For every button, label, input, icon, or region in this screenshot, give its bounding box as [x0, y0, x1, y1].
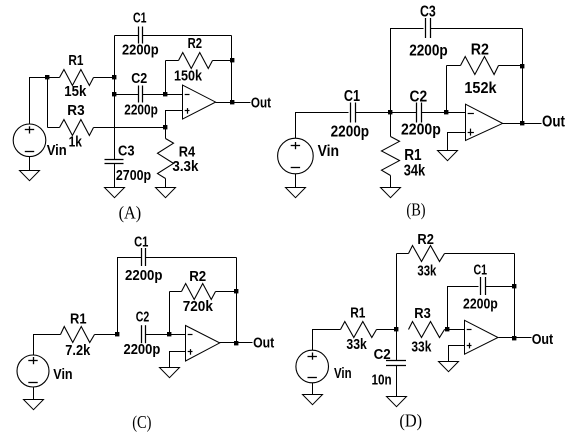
wire bus to C2 (A) [115, 94, 139, 96]
wire C2 to inverting node (C) [146, 334, 170, 336]
wire op-amp output (B) [503, 123, 542, 125]
resistor R2 150k (A) [166, 36, 232, 84]
svg-text:Vin: Vin [53, 367, 72, 383]
op-amp U1 (B) [466, 104, 503, 140]
wire input node down to R3 (A) [47, 78, 49, 128]
svg-text:(D): (D) [399, 411, 422, 431]
wire C1 to right vertical (C) [146, 257, 237, 259]
svg-text:33k: 33k [346, 337, 366, 353]
node inverting junction (D) [445, 327, 449, 331]
wire R1 to X node (D) [377, 329, 397, 331]
svg-text:C1: C1 [133, 11, 147, 27]
svg-text:R1: R1 [70, 312, 87, 328]
ground below R1 (B) [381, 188, 401, 198]
svg-text:2200p: 2200p [401, 122, 441, 139]
wire C2 to inverting node (B) [422, 112, 447, 114]
node C1-right junction (D) [512, 284, 516, 288]
node R2-output junction (A) [230, 58, 234, 62]
wire op-amp output (A) [216, 102, 251, 104]
ground at plus input (C) [160, 368, 180, 378]
svg-text:C1: C1 [474, 263, 488, 279]
svg-text:2200p: 2200p [122, 43, 159, 59]
resistor R2 33k (D) [397, 232, 515, 279]
node output junction (A) [230, 100, 234, 104]
node R3/R4/plus junction (A) [163, 125, 167, 129]
resistor R2 152k (B) [447, 42, 523, 97]
wire R1 to bus node (C) [95, 334, 118, 336]
wire C1 to right vertical (D) [486, 286, 515, 288]
wire C1 branch (D) [448, 287, 479, 330]
wire Vin top to C1 (B) [296, 113, 349, 139]
svg-text:2200p: 2200p [124, 103, 158, 119]
wire op-amp output (C) [220, 342, 253, 344]
svg-text:34k: 34k [404, 162, 426, 179]
svg-text:(A): (A) [119, 203, 142, 223]
wire C1 to output vertical (A) [143, 35, 232, 37]
resistor R1 7.2k (C) [61, 312, 95, 360]
wire inverting node to op-amp (C) [170, 334, 186, 336]
capacitor C2 10n (D) [372, 330, 407, 397]
svg-text:C2: C2 [374, 347, 391, 363]
node R2-right junction (B) [520, 64, 524, 68]
svg-text:C3: C3 [118, 143, 135, 159]
svg-text:Out: Out [251, 96, 271, 112]
node inverting junction (A) [163, 92, 167, 96]
svg-text:33k: 33k [411, 340, 431, 356]
resistor R1 34k (B) [382, 113, 426, 188]
svg-text:C1: C1 [134, 234, 148, 250]
node X junction (D) [394, 327, 398, 331]
wire C2 to inverting node (A) [143, 94, 166, 96]
node input junction (A) [45, 75, 49, 79]
svg-text:Out: Out [532, 332, 554, 348]
wire output vertical (A) [231, 36, 233, 103]
svg-text:C1: C1 [344, 88, 361, 105]
svg-text:Out: Out [253, 336, 274, 352]
svg-text:2200p: 2200p [331, 124, 370, 141]
wire plus input (A) [166, 111, 183, 128]
capacitor C1 2200p (D) [463, 263, 498, 313]
svg-text:C2: C2 [136, 309, 150, 325]
node output junction (D) [512, 336, 516, 340]
svg-text:2200p: 2200p [409, 43, 448, 60]
ground below C3 (A) [105, 188, 125, 198]
wire bus to C1 (A) [115, 35, 139, 37]
wire C3 branch up (B) [391, 29, 424, 113]
wire R1 node to C2 (B) [391, 112, 417, 114]
svg-text:Vin: Vin [318, 143, 340, 160]
ground at plus input (D) [439, 362, 459, 372]
wire C1 to R1 node (B) [356, 112, 391, 114]
capacitor C1 2200p (A) [122, 11, 159, 59]
svg-text:C3: C3 [420, 4, 436, 21]
wire plus input to ground (D) [449, 346, 465, 362]
node output junction (C) [234, 341, 238, 345]
ground at plus input (B) [438, 151, 458, 161]
capacitor C3 2200p (B) [409, 4, 448, 60]
svg-text:(B): (B) [406, 200, 425, 220]
capacitor C2 2200p (C) [124, 309, 161, 358]
ground below Vin (B) [286, 174, 306, 198]
wire inverting node to op-amp (A) [166, 94, 183, 96]
node inverting junction (B) [444, 110, 448, 114]
wire inverting node up to R2 (A) [165, 61, 167, 95]
resistor R1 15k (A) [60, 53, 94, 100]
wire op-amp output (D) [499, 337, 532, 339]
wire Vin top to R1 (C) [34, 335, 61, 356]
svg-text:R2: R2 [188, 36, 202, 52]
wire inverting node to op-amp (B) [447, 112, 466, 114]
svg-text:2200p: 2200p [124, 342, 161, 358]
voltage source Vin (circuit D) [296, 350, 352, 383]
svg-text:7.2k: 7.2k [65, 343, 90, 359]
wire plus input to ground (B) [448, 133, 466, 151]
svg-text:R2: R2 [189, 269, 206, 285]
capacitor C2 2200p (A) [124, 71, 158, 118]
wire C3 to right vertical (B) [431, 28, 523, 30]
node bus-C2 junction (A) [112, 92, 116, 96]
node inverting junction (C) [167, 332, 171, 336]
node R1-bus junction (A) [112, 75, 116, 79]
voltage source Vin (circuit B) [278, 138, 340, 174]
ground below R4 (A) [156, 188, 176, 198]
svg-text:R2: R2 [471, 42, 489, 59]
voltage source Vin (circuit C) [17, 355, 73, 387]
svg-text:Vin: Vin [47, 143, 67, 159]
wire inverting node to op-amp (D) [448, 329, 465, 331]
ground below Vin (A) [20, 157, 40, 181]
op-amp U1 (A) [183, 85, 216, 119]
op-amp U1 (C) [186, 326, 220, 362]
wire plus input to ground (C) [170, 352, 186, 368]
wire right vertical (B) [522, 29, 524, 124]
ground below Vin (D) [303, 383, 323, 405]
op-amp U1 (D) [465, 320, 499, 354]
resistor R2 720k (C) [170, 269, 237, 315]
resistor R3 1k (A) [48, 103, 94, 151]
wire R2 left vertical (D) [396, 254, 398, 330]
wire bus vertical (A) [114, 36, 116, 160]
svg-text:2700p: 2700p [116, 168, 151, 184]
wire R3 to plus-input node (A) [94, 127, 166, 129]
svg-text:33k: 33k [417, 263, 436, 279]
wire right vertical (D) [514, 254, 516, 338]
wire R1 to bus (A) [94, 77, 115, 79]
svg-text:15k: 15k [64, 84, 86, 100]
node C1/R1/C3 junction (B) [388, 110, 392, 114]
svg-text:Out: Out [542, 114, 565, 131]
svg-text:720k: 720k [183, 299, 213, 315]
svg-text:R3: R3 [67, 103, 84, 119]
svg-text:R1: R1 [350, 306, 365, 322]
resistor R1 33k (D) [341, 306, 377, 354]
voltage source Vin (circuit A) [13, 124, 66, 159]
svg-text:R2: R2 [417, 232, 434, 248]
capacitor C1 2200p (C) [125, 234, 163, 284]
wire R3 to inverting node (D) [445, 329, 448, 331]
wire Vin top to R1 input (A) [30, 78, 60, 125]
capacitor C2 2200p (B) [401, 88, 441, 138]
wire R2 left vertical (B) [446, 66, 448, 113]
svg-text:Vin: Vin [334, 366, 352, 382]
ground below Vin (C) [24, 388, 44, 410]
capacitor C1 2200p (B) [331, 88, 370, 141]
svg-text:R3: R3 [414, 306, 431, 322]
svg-text:3.3k: 3.3k [172, 159, 198, 175]
svg-text:C2: C2 [131, 71, 147, 87]
svg-text:(C): (C) [132, 412, 151, 432]
node output junction (B) [520, 121, 524, 125]
svg-text:2200p: 2200p [463, 296, 498, 312]
svg-text:10n: 10n [372, 372, 392, 388]
node R1-bus junction (C) [115, 332, 119, 336]
capacitor C3 2700p (A) [105, 143, 152, 187]
svg-text:152k: 152k [464, 80, 497, 97]
svg-text:C2: C2 [410, 88, 428, 105]
node R2-right junction (C) [234, 289, 238, 293]
svg-text:1k: 1k [69, 135, 82, 151]
resistor R4 3.3k (A) [158, 128, 199, 188]
svg-text:150k: 150k [174, 69, 202, 85]
svg-text:R1: R1 [68, 53, 83, 69]
resistor R3 33k (D) [409, 306, 445, 356]
ground below C2 (D) [387, 397, 407, 407]
svg-text:2200p: 2200p [125, 268, 163, 284]
wire right vertical (C) [236, 258, 238, 343]
wire Vin top to R1 (D) [313, 330, 341, 351]
wire bus up to C1 (C) [118, 258, 142, 335]
wire R2 left vertical (C) [169, 292, 171, 335]
